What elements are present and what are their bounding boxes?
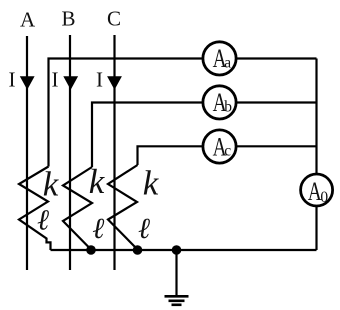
ground symbol bars [165, 296, 189, 305]
svg-text:I: I [52, 68, 59, 92]
resistor k/l phase B (zigzag winding) [63, 167, 92, 250]
wire phase B vertical [69, 35, 71, 270]
wire tap b: corner at (92,102.5) down to winding k [92, 103, 202, 168]
svg-text:I: I [96, 68, 103, 92]
wire phase A vertical [26, 36, 28, 270]
wire bottom neutral bus [51, 249, 317, 251]
ground stem [175, 250, 177, 296]
ammeter Ab circle [203, 86, 236, 119]
wire tap c: corner at (137.5,146.3) down to winding k [138, 146, 202, 165]
ammeter A0 circle [301, 174, 333, 206]
svg-text:ℓ: ℓ [92, 213, 104, 245]
svg-text:ℓ: ℓ [37, 205, 49, 237]
resistor k/l phase A (zigzag winding) [19, 167, 51, 251]
svg-text:k: k [143, 164, 160, 203]
svg-text:B: B [61, 7, 75, 31]
svg-text:a: a [224, 54, 231, 71]
ammeter Ac circle [203, 130, 236, 163]
node junction dot at winding C / bus [133, 245, 143, 255]
svg-text:ℓ: ℓ [138, 213, 150, 245]
svg-text:c: c [224, 143, 231, 160]
wire ammeter Aa line right segment [237, 57, 317, 59]
resistor k/l phase C (zigzag winding) [108, 165, 138, 250]
svg-text:0: 0 [320, 189, 328, 206]
wire ammeter Ab line right segment [237, 101, 317, 103]
svg-text:A: A [20, 7, 36, 31]
ammeter Aa circle [203, 42, 236, 75]
current arrow phase C [107, 76, 122, 90]
current arrow phase A [20, 76, 35, 90]
wire right bus lower (from ammeter A0 to bottom bus) [315, 207, 317, 250]
node junction dot at winding B / bus [86, 245, 96, 255]
svg-text:I: I [9, 68, 16, 92]
svg-text:k: k [43, 165, 60, 204]
wire phase C vertical [113, 35, 115, 270]
svg-text:b: b [224, 98, 232, 115]
svg-text:k: k [89, 162, 106, 201]
svg-text:C: C [107, 7, 121, 31]
node junction dot at ground tap / bus [172, 245, 182, 255]
wire tap a: corner at (48.5,58.5) down to winding k [49, 59, 203, 167]
wire ammeter Ac line right segment [237, 145, 317, 147]
current arrow phase B [63, 76, 78, 90]
wire right bus upper (to ammeter A0) [315, 59, 317, 174]
